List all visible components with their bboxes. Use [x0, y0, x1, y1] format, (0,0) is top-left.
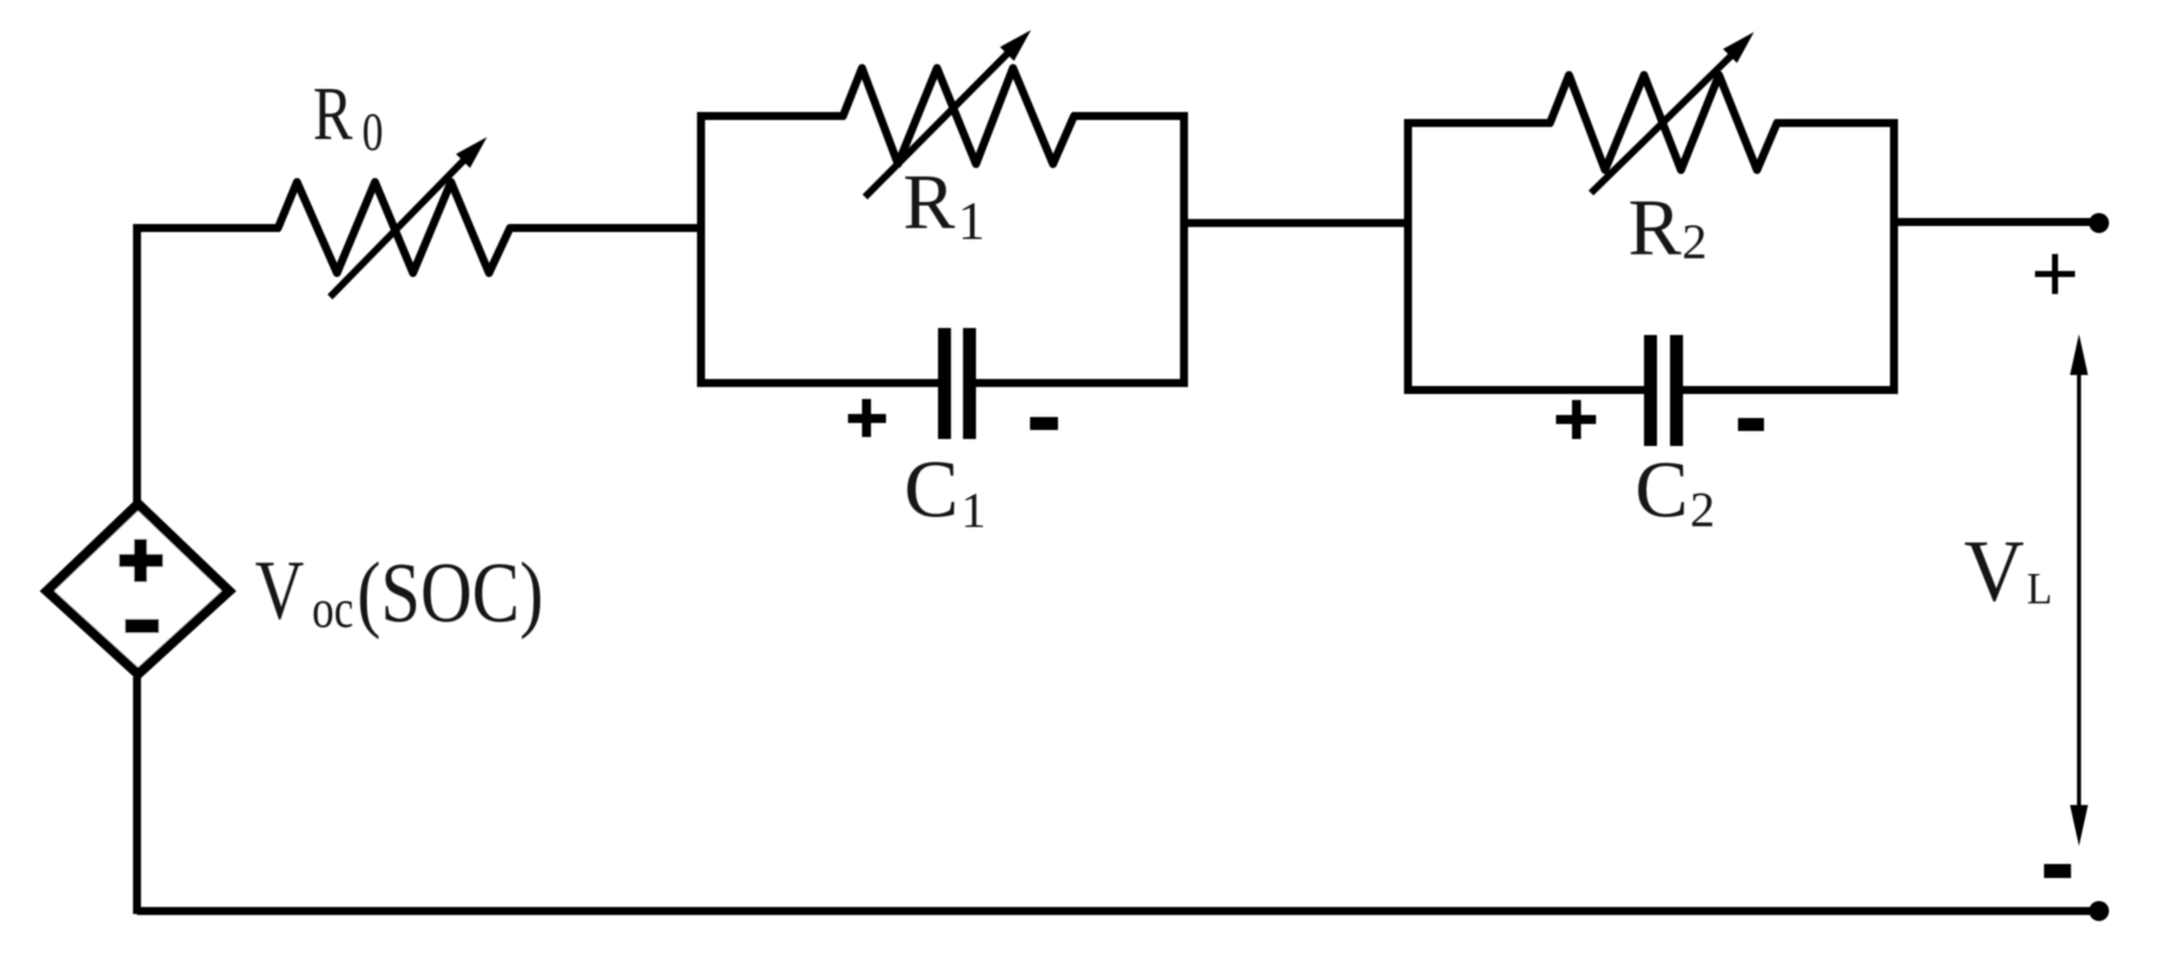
svg-text:V: V [255, 542, 304, 637]
svg-text:C: C [904, 443, 959, 534]
capacitor C1 left plate [938, 328, 951, 439]
box2 bottom-left edge [1404, 386, 1651, 394]
box2 bottom-right edge [1677, 386, 1898, 394]
box1 top-left edge [701, 112, 845, 120]
box2 top-right edge [1775, 119, 1894, 127]
source minus sign [125, 619, 159, 633]
resistor R2 (variable) zigzag [1550, 75, 1777, 170]
resistor R1 arrowhead [1000, 30, 1031, 61]
svg-text:V: V [1964, 522, 2024, 619]
svg-text:0: 0 [362, 103, 383, 162]
C2 minus sign [1738, 418, 1764, 431]
svg-text:C: C [1635, 446, 1688, 534]
svg-text:R: R [903, 158, 955, 245]
terminal plus sign [2035, 254, 2075, 294]
resistor R2 arrowhead [1723, 32, 1754, 63]
wire: R0 to box1 [510, 224, 705, 232]
dependent voltage source Voc(SOC) diamond [47, 504, 229, 674]
svg-text:R: R [313, 71, 353, 156]
node: positive terminal dot [2089, 213, 2109, 233]
box1 left edge [697, 112, 705, 387]
label R2 [1628, 184, 1707, 272]
terminal minus sign [2044, 864, 2071, 878]
resistor R0 arrow shaft [330, 154, 470, 297]
resistor R0 (variable) zigzag [278, 182, 510, 273]
svg-text:oc: oc [312, 578, 354, 639]
resistor R1 arrow shaft [865, 49, 1012, 197]
C1 minus sign [1030, 417, 1058, 430]
svg-text:1: 1 [961, 482, 986, 538]
label C2 [1635, 446, 1715, 537]
resistor R2 arrow shaft [1591, 51, 1736, 193]
label VL [1964, 522, 2052, 619]
resistor R1 (variable) zigzag [843, 68, 1074, 164]
capacitor C2 left plate [1644, 335, 1657, 446]
label R1 [903, 158, 985, 251]
box1 top-right edge [1072, 112, 1184, 120]
box1 bottom-right edge [970, 379, 1188, 387]
node: negative terminal dot [2089, 901, 2109, 921]
VL measurement arrow (double-headed) [2070, 334, 2088, 846]
wire: box2 to positive terminal [1894, 218, 2099, 226]
label Voc(SOC) [255, 542, 304, 637]
box2 right edge [1890, 119, 1898, 394]
svg-text:R: R [1628, 184, 1682, 272]
resistor R0 arrowhead [456, 137, 487, 168]
wire: left vertical from source top up and across to R0 [137, 228, 280, 502]
box1 right edge [1180, 112, 1188, 387]
source plus sign [119, 539, 163, 582]
box2 left edge [1404, 119, 1412, 394]
svg-text:(SOC): (SOC) [357, 546, 543, 641]
C2 plus sign [1556, 400, 1596, 439]
capacitor C1 right plate [963, 328, 976, 439]
box2 top-left edge [1408, 119, 1552, 127]
label R0 [313, 71, 383, 162]
wire: bottom return [137, 907, 2099, 915]
svg-text:2: 2 [1690, 481, 1715, 537]
wire: left vertical from source bottom [133, 677, 141, 914]
svg-text:2: 2 [1682, 213, 1707, 269]
capacitor C2 right plate [1670, 335, 1683, 446]
svg-text:1: 1 [958, 191, 985, 251]
wire: box1 to box2 [1184, 219, 1408, 227]
svg-text:L: L [2027, 565, 2053, 613]
box1 bottom-left edge [697, 379, 944, 387]
C1 plus sign [848, 399, 886, 437]
label C1 [904, 443, 986, 538]
